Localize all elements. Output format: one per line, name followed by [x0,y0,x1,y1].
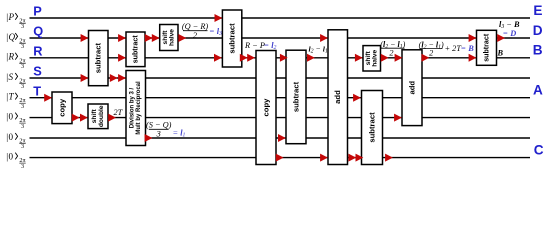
svg-text:3: 3 [21,123,24,130]
svg-text:0: 0 [9,132,14,142]
svg-text:halve: halve [169,29,176,46]
svg-text:Division by 3 /: Division by 3 / [129,88,135,129]
copy box U2 (T -> ancilla1) [52,92,72,124]
node label R (wire name) [33,43,42,58]
shift halve box U6 (wire Q) [160,25,178,51]
arrow into U12 on wire 5 [353,94,361,102]
svg-text:3: 3 [21,23,24,30]
svg-text:= D: = D [503,29,517,38]
svg-text:3: 3 [21,43,24,50]
arrow out of U7 on wire 3 (1st of pair) [240,54,248,62]
subtract box U9 (tall) [286,50,306,144]
subtract box U12 [362,91,383,165]
subtract box U14 (D,B) [477,30,497,65]
annotation (S-Q)/3 = l1 [146,121,186,139]
svg-text:(Q − R): (Q − R) [182,22,209,31]
node label Q (wire name) [33,24,43,39]
shift halve box U11 (wire B) [363,46,381,71]
input ket |0> 2pi/3 (ancilla 1) [6,112,26,130]
arrow out of U14 on wire 2 [497,34,505,42]
input ket |T> 2pi/3 [6,92,26,110]
wire 6 (|0> ancilla 1) [30,117,531,119]
svg-text:T: T [33,83,41,98]
arrow out of U13 on wire 3 [422,54,430,62]
svg-text:subtract: subtract [483,33,491,62]
arrow into U3 on wire 2 [118,34,126,42]
svg-text:3: 3 [21,103,24,110]
shift double box U5 (ancilla1) [88,104,108,129]
subtract box U1 (P,Q,R,S) [89,31,109,86]
svg-text:B: B [533,43,543,58]
arrow out of U3 on wire 2 (1st of pair) [145,34,153,42]
arrow into U10 on wire 8 [320,154,328,162]
input ket |P> 2pi/3 [6,12,26,30]
input ket |Q> 2pi/3 [6,32,26,50]
output node A [533,83,543,98]
svg-text:subtract: subtract [228,23,237,54]
svg-text:P: P [8,12,15,22]
wire 7 (|0> ancilla 2) [30,137,531,139]
svg-text:subtract: subtract [368,112,377,143]
label of U5 [91,105,105,127]
arrow out of U12 on wire 8 [385,154,393,162]
annotation (Q-R)/2 = l3 [182,22,222,40]
arrow into U6 on wire 2 (2nd of pair) [152,34,160,42]
arrow into U12 on wire 8 (2nd of pair) [356,154,364,162]
wire 3 (R/B) [30,57,531,59]
svg-text:Q: Q [33,24,43,39]
annotation (l2-l1)/2 + 2T = B [419,40,475,57]
svg-text:subtract: subtract [132,35,140,64]
arrow into U9 on wire 3 [280,54,288,62]
svg-text:A: A [533,83,543,98]
subtract box U7 (P,Q,R) [222,10,241,67]
label of U13 [408,81,417,95]
svg-text:C: C [534,142,544,157]
wire 2 (Q/D) [30,37,531,39]
svg-text:Q: Q [9,32,16,42]
add box U13 [402,50,422,126]
label of U3 [132,35,140,64]
svg-text:add: add [408,81,417,95]
arrow out of U11 on wire 3 [381,54,389,62]
label of U14 [483,33,491,62]
svg-text:S: S [9,72,14,82]
label of U11 [365,50,379,67]
output node D [533,23,543,38]
arrow into U4 on wire 4 (2nd of pair) [118,74,126,82]
svg-text:= B: = B [461,44,475,53]
annotation R - P = l2 [244,41,277,51]
arrow into U1 on wire 4 [81,74,89,82]
arrow into U11 on wire 3 [355,54,363,62]
arrow into U14 on wire 2 [469,34,477,42]
svg-text:double: double [98,105,105,127]
annotation l2 - l1 [309,45,328,55]
arrow out of U1 on wire 4 (1st of pair) [110,74,118,82]
label of U7 [228,23,237,54]
svg-text:E: E [533,3,542,18]
wire 5 (T/A) [30,97,531,99]
label of U9 [292,81,301,112]
wire 1 (P/E) [30,17,531,19]
wire 4 (S) [30,77,531,79]
arrow into U2 on wire 5 [44,94,52,102]
label of U12 [368,112,377,143]
arrow into U7 on wire 3 [214,54,222,62]
input ket |0> 2pi/3 (ancilla 2) [6,132,26,150]
arrow out of U8 on wire 8 [276,154,284,162]
node label S (wire name) [33,64,42,79]
svg-text:2T: 2T [114,108,124,117]
svg-text:3: 3 [21,143,24,150]
label of U1 [94,43,103,74]
output node E [533,3,542,18]
arrow into U9 on wire 7 [278,134,286,142]
arrow into U1 on wire 2 [81,34,89,42]
svg-text:R: R [8,52,15,62]
svg-text:B: B [497,49,504,58]
svg-text:subtract: subtract [292,81,301,112]
label of U6 [162,29,176,46]
svg-text:3: 3 [21,163,24,170]
input ket |R> 2pi/3 [6,52,26,70]
arrow out of U10 on wire 8 (1st of pair) [348,154,356,162]
svg-text:2: 2 [193,31,197,40]
svg-text:D: D [533,23,543,38]
svg-text:3: 3 [156,130,161,139]
svg-text:copy: copy [58,98,67,117]
svg-text:(S − Q): (S − Q) [146,121,172,130]
annotation (l2-l1)/2 [380,40,405,57]
add box U10 (tall) [328,30,348,165]
svg-text:3: 3 [21,83,24,90]
annotation B (output of U14 lower) [497,49,504,58]
arrow into U8 on wire 3 (2nd of pair) [247,54,255,62]
division box U4 (Division by 3 / Mult by Reciprocal) [126,71,146,146]
svg-text:2: 2 [389,48,393,57]
arrow out of U5 on wire 6 [108,114,116,122]
svg-text:2: 2 [429,48,433,57]
arrow out of U6 on wire 2 [178,34,186,42]
annotation 2T [114,108,124,117]
wire 8 (|0> ancilla 3 / C) [30,157,531,159]
input ket |S> 2pi/3 [6,72,26,90]
svg-text:S: S [33,64,42,79]
arrow out of U2 on wire 6 (1st of pair) [72,114,80,122]
node label P (wire name) [33,4,42,19]
svg-text:0: 0 [9,152,14,162]
svg-text:Mult by Reciprocal: Mult by Reciprocal [136,81,142,135]
arrow into U5 on wire 6 (2nd of pair) [80,114,88,122]
arrow out of U9 on wire 3 [307,54,315,62]
node label T (wire name) [33,83,41,98]
svg-text:copy: copy [262,98,271,117]
annotation l3 - B = D [499,20,520,38]
input ket |0> 2pi/3 (ancilla 3) [6,152,26,170]
svg-text:add: add [333,90,342,104]
svg-text:halve: halve [372,50,379,67]
copy box U8 (tall) [256,51,276,165]
output node C [534,142,544,157]
label of U2 [58,98,67,117]
label of U10 [333,90,342,104]
label of U4 [129,81,142,135]
arrow out of U4 on wire 7 [145,134,153,142]
output node B [533,43,543,58]
svg-text:P: P [33,4,42,19]
svg-text:0: 0 [9,112,14,122]
arrow into U13 on wire 3 [395,54,403,62]
arrow into U13 on wire 6 [394,114,402,122]
svg-text:R: R [33,43,42,58]
subtract box U3 (Q,R) [126,32,145,67]
arrow into U10 on wire 2 [320,34,328,42]
svg-text:R − P: R − P [244,41,265,50]
arrow into U14 on wire 3 [469,54,477,62]
arrow into U7 on wire 1 [215,14,223,22]
svg-text:3: 3 [21,63,24,70]
label of U8 [262,98,271,117]
arrow into U3 on wire 3 [118,54,126,62]
svg-text:subtract: subtract [94,43,103,74]
